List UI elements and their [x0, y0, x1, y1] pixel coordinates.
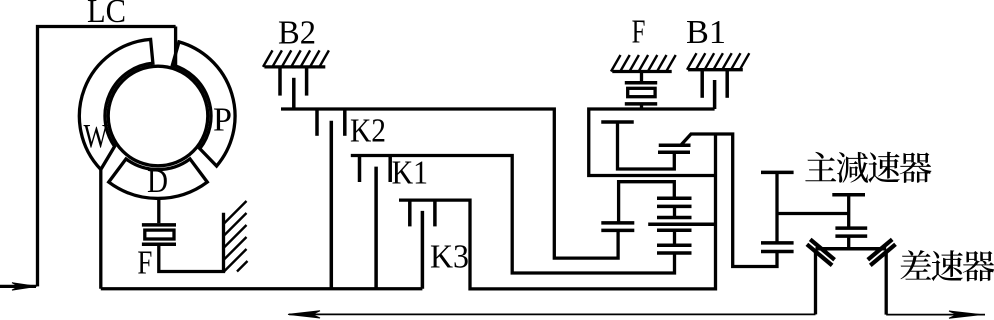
svg-text:F: F [632, 13, 646, 50]
svg-text:F: F [137, 245, 152, 282]
brake B2 ground line [264, 65, 325, 68]
wire: B2/K2 rail down to second planetary sun [281, 109, 618, 258]
svg-text:K2: K2 [350, 113, 386, 150]
front drum (box): top rail, left wall, bottom wall [589, 109, 716, 176]
wire: countershaft [777, 212, 849, 215]
freewheel F stem from ground [640, 72, 643, 83]
rear sun mesh bars [601, 221, 634, 225]
rear stack stems [673, 206, 676, 217]
clutch K2 driven plate / input drop [330, 121, 334, 289]
label 差速器 (differential) [901, 250, 932, 280]
input arrow line [0, 285, 36, 288]
svg-text:B1: B1 [686, 14, 726, 51]
differential cage cross bar [816, 247, 887, 251]
left axle arrowhead [288, 311, 320, 318]
freewheel F (stator one-way clutch): top plate [142, 223, 176, 227]
brake B1 outer plates [700, 70, 704, 98]
svg-text:LC: LC [87, 0, 126, 30]
wire: to differential cage [847, 236, 850, 247]
freewheel F body [628, 88, 655, 96]
freewheel F ground line [612, 70, 671, 73]
brake B1 ground line [688, 68, 743, 71]
wire: LC loop (top horizontal + left vertical) [38, 27, 176, 287]
final drive second mesh bars [835, 226, 867, 230]
output shaft bar to final drive [648, 222, 715, 226]
rear drum top [619, 182, 675, 223]
wire: gear shaft [847, 195, 850, 228]
stator D segment [109, 159, 208, 199]
wire: input shaft bottom rail [101, 287, 423, 290]
svg-text:K3: K3 [430, 239, 469, 276]
clutch K2 drive plates [315, 109, 319, 136]
right axle shaft [885, 250, 888, 315]
freewheel F ground hatching [611, 55, 676, 72]
clutch K3 driven plate / input drop [421, 211, 425, 289]
wire: freewheel to wall [159, 213, 224, 272]
svg-text:B2: B2 [278, 14, 316, 51]
brake B1 inner plate [713, 80, 717, 109]
svg-text:D: D [147, 163, 168, 200]
wire: front ring to final-drive input (diagonal, across, down, to pinion shaft) [681, 134, 778, 267]
torque converter inner circle [108, 66, 208, 166]
label 主減速器 (main reducer) [805, 152, 836, 181]
brake B2 ground hatching [263, 50, 329, 67]
rear planet stack bars [657, 196, 692, 200]
final drive first mesh bars [761, 241, 794, 245]
front sun gear bar [601, 120, 634, 124]
final drive gear bar [832, 193, 865, 197]
ground wall hatching [224, 201, 248, 272]
freewheel F bottom plate [142, 242, 176, 246]
wire: sun shaft to front mesh [618, 122, 675, 169]
brake B1 ground hatching [687, 53, 749, 70]
final drive pinion shaft [775, 172, 778, 243]
left axle output line [289, 313, 816, 315]
differential left bevel gear [810, 239, 834, 259]
left axle shaft [814, 250, 817, 314]
wire: turbine output shaft down [99, 170, 102, 289]
final drive pinion bar [761, 171, 794, 175]
freewheel F top plate [625, 81, 657, 85]
svg-text:W: W [84, 118, 109, 155]
differential right bevel gear [868, 239, 892, 259]
right axle arrowhead [949, 311, 981, 318]
pump P segment [172, 42, 235, 166]
front gear mesh bars [659, 144, 691, 148]
clutch K1 driven plate / input drop [374, 167, 378, 289]
freewheel F stem to rail [640, 105, 643, 109]
brake B2 inner plate [292, 78, 296, 109]
clutch K3 drive plates [408, 200, 412, 226]
wire: K3 rail and output to final drive rail [399, 134, 716, 289]
svg-text:K1: K1 [392, 155, 428, 192]
input arrowhead [12, 283, 37, 290]
svg-text:P: P [213, 102, 232, 139]
right axle output line [886, 314, 985, 316]
wire: lock-up clutch drop into converter [174, 27, 177, 67]
clutch K1 drive plates [358, 156, 362, 183]
freewheel F body [145, 230, 174, 239]
turbine W segment [79, 39, 153, 169]
brake B2 outer plates [278, 67, 282, 96]
wire: stator stem [157, 198, 160, 223]
wire: K1 rail to rear ring gear [351, 156, 675, 274]
freewheel F bottom plate [625, 102, 657, 106]
